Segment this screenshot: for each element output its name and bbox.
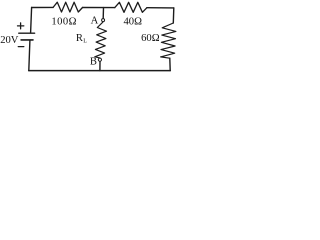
svg-text:100Ω: 100Ω [51, 17, 77, 28]
wire top left segment [32, 6, 53, 8]
resistor R2 40Ω zigzag [115, 2, 147, 12]
svg-text:B: B [90, 56, 97, 67]
wire top right segment [147, 7, 174, 9]
wire top middle segment (node A tap) [83, 7, 115, 9]
battery minus sign [18, 46, 24, 48]
resistor R1 100Ω zigzag [53, 2, 82, 12]
svg-text:60Ω: 60Ω [141, 33, 160, 44]
node A terminal circle [102, 19, 105, 22]
wire below node B [99, 62, 101, 71]
wire bottom run [29, 70, 170, 72]
battery plus sign [18, 23, 24, 29]
svg-text:A: A [91, 15, 99, 26]
node B terminal circle [98, 58, 101, 61]
wire node A drop [102, 8, 104, 19]
wire left vertical (battery top) [31, 8, 32, 33]
battery 20V bottom plate [21, 39, 33, 41]
wire right vertical (to 60Ω) [172, 8, 175, 23]
wire right vertical (60Ω bottom) [169, 58, 171, 70]
battery 20V top plate [19, 32, 35, 34]
wire left vertical (battery bottom) [29, 41, 30, 71]
svg-text:L: L [83, 39, 87, 45]
resistor RL (load) vertical zigzag [95, 22, 107, 58]
resistor R3 60Ω vertical zigzag [161, 23, 176, 58]
svg-text:20V: 20V [0, 35, 19, 46]
svg-text:40Ω: 40Ω [124, 17, 143, 28]
